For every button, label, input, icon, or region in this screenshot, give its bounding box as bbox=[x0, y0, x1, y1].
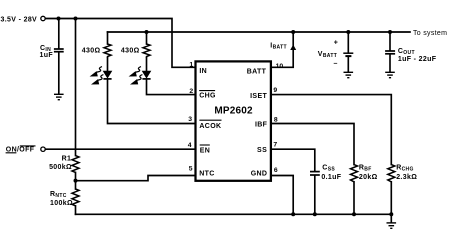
svg-text:IBF: IBF bbox=[255, 121, 268, 128]
svg-text:430Ω: 430Ω bbox=[121, 48, 140, 55]
svg-text:RBF: RBF bbox=[359, 165, 372, 173]
svg-text:ACOK: ACOK bbox=[199, 123, 221, 130]
svg-text:500kΩ: 500kΩ bbox=[49, 164, 72, 171]
svg-text:NTC: NTC bbox=[199, 170, 214, 177]
svg-text:2: 2 bbox=[189, 88, 193, 95]
svg-text:430Ω: 430Ω bbox=[82, 48, 101, 55]
svg-text:1uF - 22uF: 1uF - 22uF bbox=[398, 56, 437, 63]
svg-text:20kΩ: 20kΩ bbox=[359, 174, 378, 181]
svg-text:10: 10 bbox=[276, 63, 284, 70]
svg-text:IN: IN bbox=[199, 68, 207, 75]
svg-text:ISET: ISET bbox=[250, 93, 267, 100]
svg-text:6: 6 bbox=[274, 167, 278, 174]
svg-text:RNTC: RNTC bbox=[50, 191, 67, 199]
svg-text:–: – bbox=[334, 60, 338, 67]
svg-text:8: 8 bbox=[274, 116, 278, 123]
svg-text:9: 9 bbox=[273, 87, 277, 94]
svg-text:1uF: 1uF bbox=[40, 52, 54, 59]
svg-text:BATT: BATT bbox=[247, 69, 267, 76]
svg-text:IBATT: IBATT bbox=[270, 42, 287, 50]
svg-text:SS: SS bbox=[257, 147, 267, 154]
svg-text:4: 4 bbox=[188, 142, 192, 149]
svg-text:2.3kΩ: 2.3kΩ bbox=[396, 174, 417, 181]
svg-text:R1: R1 bbox=[62, 156, 72, 163]
svg-text:RCHG: RCHG bbox=[396, 165, 414, 173]
svg-text:100kΩ: 100kΩ bbox=[50, 200, 73, 207]
svg-text:3: 3 bbox=[188, 116, 192, 123]
svg-text:CSS: CSS bbox=[322, 165, 335, 173]
svg-text:1: 1 bbox=[189, 62, 193, 69]
svg-text:GND: GND bbox=[251, 171, 268, 178]
svg-text:7: 7 bbox=[273, 141, 277, 148]
svg-text:3.5V - 28V: 3.5V - 28V bbox=[1, 17, 38, 24]
svg-text:0.1uF: 0.1uF bbox=[321, 174, 341, 181]
svg-text:MP2602: MP2602 bbox=[214, 106, 253, 117]
svg-text:CHG: CHG bbox=[199, 92, 216, 99]
svg-text:COUT: COUT bbox=[398, 48, 415, 56]
svg-text:5: 5 bbox=[189, 165, 193, 172]
svg-text:VBATT: VBATT bbox=[318, 51, 337, 59]
svg-text:+: + bbox=[334, 40, 338, 47]
svg-text:EN: EN bbox=[200, 147, 210, 154]
svg-text:To system: To system bbox=[413, 30, 447, 37]
